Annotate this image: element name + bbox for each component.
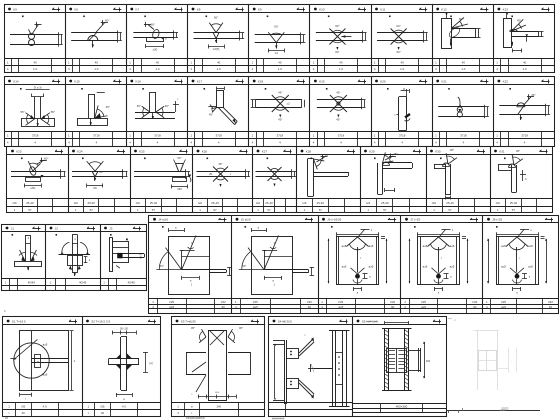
parameter table [232,298,319,300]
svg-text:40: 40 [217,61,221,65]
detail cell ML-1 frame [2,225,46,291]
index mark a [311,158,313,160]
dimension below [24,185,41,187]
svg-text:45°: 45° [278,118,282,122]
weld arrow [92,41,94,48]
svg-text:≥50: ≥50 [30,186,35,190]
index mark a [83,16,85,18]
parameter table [371,131,432,133]
top tick [446,15,448,19]
top weld fan [347,237,358,247]
index mark a [414,226,416,228]
bottom weld [510,268,517,274]
detail title bar 6 [297,154,361,156]
weld reference mark [33,228,41,230]
weld fan large [239,269,264,271]
vertical plate [109,238,111,272]
svg-text:t/25: t/25 [338,300,343,304]
detail title bar 3 [130,154,193,156]
svg-text:60: 60 [549,305,553,309]
right arc weld [80,242,87,254]
index mark a [20,88,22,90]
column flanges [384,328,386,390]
svg-text:a≥5: a≥5 [421,305,426,309]
top beam [498,164,512,166]
index mark a [267,16,269,18]
detail cell R2-5 frame [249,77,310,147]
svg-text:≥2: ≥2 [287,102,291,106]
svg-text:J3: J3 [109,226,113,230]
detail B-4 frame [269,317,353,417]
splice plate box [387,349,407,373]
svg-text:a≥5: a≥5 [342,264,347,268]
weld groove fan [228,337,235,343]
detail cell R2-3 frame [127,77,188,147]
top beam [434,164,446,166]
detail cell R3-5 frame [253,147,297,213]
detail cell ML-3 frame [101,225,147,291]
svg-text:40: 40 [401,61,405,65]
vertical plate [398,97,400,131]
inner horizontal [264,256,292,258]
index mark a [12,234,14,236]
svg-text:S2 T=16.5 2-5: S2 T=16.5 2-5 [91,319,110,323]
weld reference mark [542,81,550,83]
double-V weld cross [268,167,282,181]
bottom dim [512,50,522,52]
beam plate section [134,171,186,173]
index mark a [21,158,23,160]
svg-text:57: 57 [152,208,156,212]
svg-text:a≥5: a≥5 [501,244,506,248]
thickness dimension [239,31,241,41]
weld reference mark [388,219,396,221]
detail B-1 column web detail [20,331,69,391]
svg-text:4.0: 4.0 [43,405,47,409]
wide vertical plate [208,330,210,401]
bottom dim [264,277,281,279]
bottom dim [182,277,199,279]
parameter table [126,131,187,133]
double-V weld cross [391,29,407,45]
svg-text:45°: 45° [137,104,141,108]
base plate [78,119,108,126]
backing plate [26,178,41,182]
left arrow tick [10,358,16,360]
weld bead [517,103,525,107]
weld leader with angle [148,25,154,30]
svg-text:a≥5: a≥5 [501,264,506,268]
parameter table [432,58,493,60]
parameter table [7,198,68,200]
svg-text:50 t 50: 50 t 50 [120,327,128,331]
weld reference mark [69,321,77,323]
weld fan [212,107,217,112]
svg-text:t/32: t/32 [221,300,226,304]
svg-text:a≥5: a≥5 [369,244,374,248]
box column splice detail [169,237,210,295]
svg-text:K13: K13 [503,7,509,11]
svg-text:t≥6: t≥6 [74,201,78,205]
svg-text:a≥5: a≥5 [450,264,455,268]
svg-text:1.0: 1.0 [217,67,221,71]
parameter table [401,298,483,300]
beam line [32,358,69,360]
beam plate section [10,34,58,36]
beam plate section [256,99,302,101]
thickness dimension [423,31,425,43]
flange inner lines [420,237,422,285]
svg-text:3718: 3718 [399,133,406,137]
top beam [383,162,413,164]
long diagonal leader [182,236,196,270]
svg-text:45°: 45° [450,148,454,152]
svg-text:K18: K18 [258,79,264,83]
svg-text:57: 57 [267,208,271,212]
double-V weld cross [330,95,347,112]
detail cell R2-9 frame [494,77,555,147]
top dim line [418,234,460,236]
left tick [397,114,400,116]
weld reference mark [284,151,292,153]
plate bottom arrow [511,42,513,45]
svg-text:t/32: t/32 [472,300,477,304]
detail title bar 2 [82,324,161,326]
flange edges [273,340,284,342]
detail cell R3-3 frame [131,147,193,213]
svg-text:57: 57 [90,208,94,212]
weld arrow [37,119,39,126]
detail title bar 5 [253,154,297,156]
side arrow [188,175,191,178]
svg-text:3t: 3t [403,87,405,91]
groove fan [174,160,176,164]
detail title bar 1 [7,154,68,156]
parameter table [297,198,361,200]
apex blob [92,171,98,177]
weld bulb [152,29,161,40]
detail title bar 8 [432,84,493,86]
svg-text:60°: 60° [44,156,49,160]
detail cell R3-4 frame [193,147,253,213]
parameter table [130,198,193,200]
weld mark [404,113,410,118]
svg-text:45°: 45° [516,149,520,153]
svg-text:J7 t>25: J7 t>25 [410,218,420,222]
dim right [520,174,526,176]
svg-text:≥3: ≥3 [275,51,279,55]
parameter table [318,298,401,300]
detail title bar 1 [3,324,82,326]
beam plate section [72,171,123,173]
svg-text:45°: 45° [218,162,222,166]
svg-text:45°: 45° [336,118,340,122]
splice plates mid [336,353,343,385]
svg-text:K10: K10 [319,7,325,11]
weld bead [383,162,390,165]
parameter table [100,278,146,280]
svg-text:K30: K30 [435,149,441,153]
bolt grid [396,348,398,372]
detail cell B-1 frame [3,317,83,417]
left arc weld [62,242,69,254]
weld reference mark [175,81,183,83]
beam plate section [133,32,173,34]
weld reference mark [297,81,305,83]
detail title bar 6 [310,84,371,86]
svg-text:1.0: 1.0 [94,67,98,71]
index mark a [328,16,330,18]
svg-text:40: 40 [34,61,38,65]
beam plate section [11,171,61,173]
index mark a [450,16,452,18]
weld bead [443,163,450,167]
detail title bar 6 [310,12,371,14]
dimension below [268,50,284,52]
beam stub right [409,350,422,352]
svg-text:1.0: 1.0 [33,67,37,71]
dimension top [97,92,105,94]
thickness dimension [484,105,486,118]
eq marks right [541,236,545,238]
beam plate section [316,32,362,34]
weld leader with angle [317,157,325,162]
stem top ticks [32,96,44,98]
top dimension [26,89,50,91]
dimension below [87,185,103,187]
section rectangle [418,237,460,285]
weld groove fan [383,161,394,163]
side arrow [341,36,351,38]
detail title bar 5 [483,222,558,224]
vertical stem [88,94,90,118]
svg-text:40: 40 [523,61,527,65]
bottom tick [116,266,120,269]
detail title bar 4 [401,222,483,224]
top dim line [496,234,538,236]
parameter table [188,131,249,133]
fan leader [359,230,365,237]
beam plate section [317,99,361,101]
svg-text:25-40: 25-40 [26,201,34,205]
blob dim right [363,273,368,275]
detail cell R3-2 frame [69,147,131,213]
beam stub [182,269,226,271]
detail title bar 1 [4,84,65,86]
svg-text:60: 60 [308,305,312,309]
thickness dim [478,28,480,38]
weld reference mark [180,151,188,153]
bolt dots [290,351,292,353]
svg-text:K6: K6 [74,7,78,11]
vertical stem [25,235,27,261]
beam plate [511,31,538,33]
thickness dim [541,31,543,37]
web line [31,331,33,390]
thickness dimension [58,32,60,46]
horizontal beam line [59,254,91,256]
detail cell R3-1 frame [7,147,69,213]
inner vertical [181,250,183,270]
svg-text:t≥6: t≥6 [256,201,260,205]
svg-text:##: ## [5,416,9,420]
vertical plate [442,19,452,49]
detail title bar 1 [4,12,65,14]
svg-text:K9: K9 [258,7,262,11]
thickness dimension [300,33,302,45]
svg-text:45°: 45° [106,105,110,109]
inner step [182,250,195,252]
svg-text:45°: 45° [517,19,521,23]
parameter table [193,198,253,200]
index mark a [387,88,389,90]
svg-text:K17: K17 [197,79,203,83]
svg-text:K8: K8 [197,7,201,11]
beam plate [452,28,476,30]
stub dim bracket [311,267,313,275]
parameter table [46,278,101,280]
svg-text:a≥5: a≥5 [338,305,343,309]
svg-text:K24: K24 [77,149,83,153]
svg-text:45°: 45° [531,93,536,97]
weld groove fan [314,159,325,161]
double-V weld cross [213,167,228,182]
svg-text:40: 40 [95,61,99,65]
svg-text:40/45: 40/45 [128,281,136,285]
weld groove fan [142,106,150,112]
column with splice plates [332,331,334,406]
curved leader [458,97,460,106]
svg-text:25-40: 25-40 [317,201,325,205]
detail cell R1-1 frame [5,5,66,73]
left weld fan [20,250,26,261]
base beam [15,262,42,267]
svg-text:J8 t>25: J8 t>25 [492,218,502,222]
svg-text:57: 57 [383,208,387,212]
detail title bar 3 [126,12,187,14]
svg-text:J6 t>16/25: J6 t>16/25 [327,218,341,222]
svg-text:25-40: 25-40 [87,201,95,205]
parameter table [490,198,553,200]
svg-text:57: 57 [448,208,452,212]
svg-text:1.0: 1.0 [461,67,465,71]
dimension below [208,46,224,48]
section rectangle [497,237,539,285]
svg-text:J2: J2 [55,226,59,230]
root arrow [161,37,164,40]
weld reference mark [219,219,227,221]
thickness dimension [122,169,124,179]
detail title bar 4 [269,324,353,326]
svg-text:25-40: 25-40 [510,201,518,205]
weld arrow [90,118,92,125]
svg-text:a≥5: a≥5 [43,343,48,347]
detail title bar 3 [100,231,146,233]
bottom weld [432,268,439,274]
double-V weld cross [272,95,289,112]
weld reference mark [540,151,548,153]
svg-text:K12: K12 [441,7,447,11]
weld reference mark [175,9,183,11]
detail cell R3-8 frame [427,147,491,213]
index mark a [509,88,511,90]
bracket plates [287,349,299,359]
detail title bar 3 [126,84,187,86]
svg-text:3718: 3718 [277,133,284,137]
flange inner lines [338,237,340,285]
index mark a [142,88,144,90]
column plate [284,340,286,404]
svg-text:45: 45 [209,172,213,176]
detail cell R1-3 frame [127,5,188,73]
index mark a [82,158,84,160]
dimension below [385,190,395,192]
detail cell R2-1 frame [5,77,66,147]
vertical plate [217,91,224,108]
horizontal plate [109,358,139,360]
svg-text:a≥5: a≥5 [342,244,347,248]
below arrow [74,273,76,276]
svg-text:57: 57 [319,208,323,212]
weld reference mark [340,321,348,323]
beam plate section [499,105,545,107]
weld arrows bottom [69,266,72,270]
vertical stem [72,235,74,273]
detail title bar 2 [65,12,126,14]
detail B-5 frame [353,317,447,417]
vertical plate [307,159,309,196]
svg-text:a≥5: a≥5 [528,244,533,248]
top weld fan [428,237,439,247]
inner step [264,250,277,252]
top dim [217,88,224,90]
weld reference mark [236,81,244,83]
weld reference mark [358,9,366,11]
detail cell R1-5 frame [249,5,310,73]
vertical plate [377,163,379,194]
top dims [112,332,136,334]
detail title bar 1 [149,222,232,224]
svg-text:t35: t35 [100,405,104,409]
svg-text:40: 40 [22,411,26,415]
bar block [113,242,129,263]
bottom left ticks [448,411,450,414]
index mark a [496,226,498,228]
bolt box [35,355,41,368]
weld arrow [276,43,278,49]
weld leader with angle [523,97,531,106]
side arm [123,253,144,255]
svg-text:t≥6: t≥6 [198,201,202,205]
svg-text:t≥6: t≥6 [13,201,17,205]
svg-text:25-40: 25-40 [211,201,219,205]
svg-text:40: 40 [339,61,343,65]
detail title bar 8 [426,154,490,156]
thickness dimension [362,31,364,43]
detail cell B-2 frame [83,317,161,417]
vertical plate [504,19,512,48]
beam plate section [256,171,292,173]
detail title bar 2 [232,222,319,224]
detail cell R1-8 frame [433,5,494,73]
root arrow [41,175,44,178]
svg-text:a≥5: a≥5 [423,264,428,268]
fan leader [518,230,524,237]
bottom dim [116,394,132,396]
fillet welds [116,354,121,359]
bottom dims [198,396,236,398]
index mark a [22,16,24,18]
